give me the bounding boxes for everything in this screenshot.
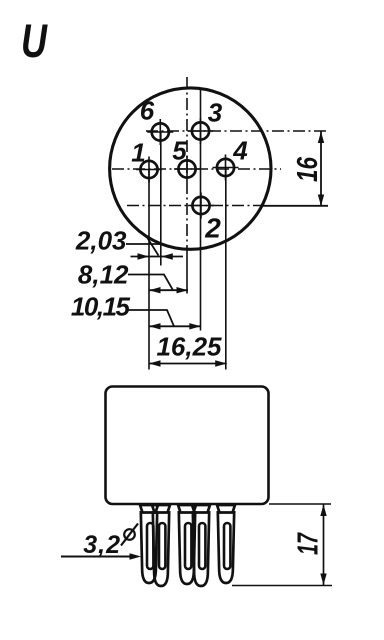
svg-text:3,2: 3,2 — [83, 531, 121, 559]
svg-text:2: 2 — [204, 213, 221, 244]
svg-text:6: 6 — [140, 96, 155, 126]
svg-text:8,12: 8,12 — [78, 260, 129, 290]
svg-text:17: 17 — [293, 532, 325, 555]
svg-text:4: 4 — [232, 136, 248, 166]
svg-text:2,03: 2,03 — [75, 226, 127, 256]
svg-text:1: 1 — [131, 138, 145, 168]
svg-text:U: U — [21, 14, 48, 67]
svg-text:3: 3 — [208, 98, 223, 128]
svg-text:16,25: 16,25 — [156, 332, 222, 362]
svg-text:5: 5 — [172, 136, 187, 166]
svg-text:10,15: 10,15 — [71, 292, 131, 322]
svg-text:16: 16 — [292, 156, 324, 182]
